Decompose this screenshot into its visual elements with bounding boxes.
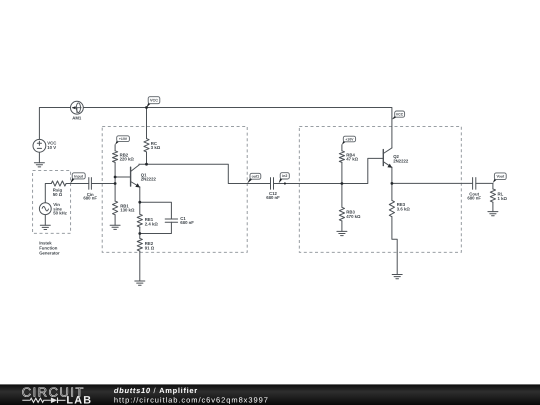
node Q1 base tap (114, 176, 117, 179)
resistor RE1 2.4 kΩ (137, 202, 158, 233)
transistor Q2 2N2222 (383, 148, 409, 184)
node VCC rail / RC junction (145, 106, 148, 109)
resistor RL 1 kΩ (490, 183, 507, 211)
wire Vin to ground (44, 215, 46, 226)
voltage source VCC 10 V (33, 139, 56, 152)
svg-text:dbutts10 / Amplifier: dbutts10 / Amplifier (114, 386, 198, 395)
wire RE3 to ground (392, 217, 397, 275)
node RB4 / RB3 tap (341, 182, 344, 185)
node Q2 emitter / RE3 / Cout (391, 182, 394, 185)
resistor RE2 91 Ω (137, 234, 155, 252)
capacitor C1 680 nF (165, 216, 194, 225)
resistor RB4 47 kΩ (339, 145, 358, 163)
svg-text:http://circuitlab.com/c6v62qm8: http://circuitlab.com/c6v62qm8x3997 (114, 395, 269, 404)
stage 2 dashed box (299, 126, 461, 252)
wire Q1 emitter to RE1 node (139, 187, 141, 202)
wire VCC source to rail (39, 108, 70, 140)
resistor RC 3 kΩ (144, 108, 161, 165)
CircuitLab logo (22, 384, 93, 405)
net flag VCC (Q2 collector) (392, 115, 397, 119)
wire Cin to bias divider (91, 183, 115, 185)
wire VCC rail (AM1 to Q2 collector) (83, 108, 392, 148)
wire Rsig to Cin (input node) (66, 183, 89, 185)
stage 1 dashed box (102, 126, 247, 252)
net flag Input (70, 177, 75, 183)
node RC / Q1 collector (145, 163, 148, 166)
capacitor C12 680 nF (266, 178, 280, 200)
svg-text:LAB: LAB (66, 395, 92, 405)
node input wire tap (114, 182, 117, 185)
wire Q1 base (115, 176, 131, 178)
wire Q2 emitter node to Cout (392, 182, 473, 184)
resistor Rsig 50 Ω (51, 181, 66, 197)
net flag +10V (stage 2) (342, 140, 346, 145)
net flag +10V (stage 1) (115, 140, 119, 145)
ground (RE3) (392, 275, 402, 279)
node RE1 / C1 / RE2 (138, 232, 141, 235)
net flag in2 (279, 177, 283, 183)
wire RB4 column to in2 node (341, 162, 343, 183)
wire bias divider column (RB2 to RB1) (114, 162, 116, 201)
wire Vin to Rsig (45, 184, 51, 203)
ammeter AM1 (71, 101, 84, 120)
capacitor Cin 680 nF (83, 178, 97, 201)
wire Cout to RL (Vout node) (476, 182, 493, 184)
wire C12 to Q2 base (274, 158, 384, 183)
resistor RB2 220 kΩ (113, 145, 135, 163)
resistor RB1 130 kΩ (113, 201, 135, 225)
wire RE2 to ground (139, 251, 141, 281)
ground (RB3) (337, 231, 347, 235)
source Vin sine 50 kHz (39, 202, 67, 216)
wire RB3 to ground (341, 184, 343, 208)
node Q1 emitter / RE1 / C1 (138, 201, 141, 204)
net flag VCC (rail) (147, 102, 151, 108)
ground (Vin) (40, 225, 50, 229)
capacitor Cout 680 nF (467, 178, 481, 201)
ground (VCC source) (34, 163, 44, 167)
wire VCC source to ground (38, 152, 40, 163)
Instek function generator dashed box (33, 171, 71, 234)
footer bar (0, 384, 540, 405)
ground (RE2) (135, 281, 145, 285)
resistor RB3 470 kΩ (339, 207, 361, 231)
wire C1 branch bottom (140, 222, 172, 233)
net flag Vout (493, 178, 497, 183)
ground (RB1) (110, 225, 120, 229)
transistor Q1 2N2222 (131, 164, 157, 187)
wire Q1 collector node to C12 (139, 164, 271, 183)
net flag out1 (247, 177, 252, 183)
wire C1 branch top (140, 202, 172, 219)
node in2 anchor (284, 182, 286, 184)
resistor RE3 3.6 kΩ (389, 183, 410, 216)
ground (RL) (488, 212, 498, 216)
caption Instek Function Generator (39, 241, 60, 256)
